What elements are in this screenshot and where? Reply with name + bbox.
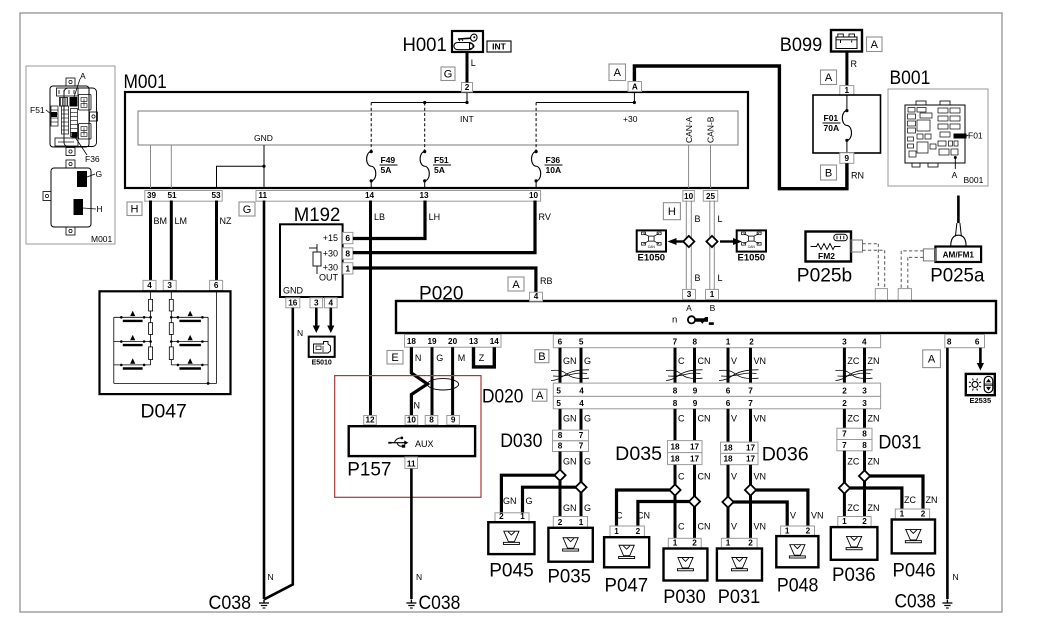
svg-text:RB: RB bbox=[540, 276, 553, 286]
svg-text:2: 2 bbox=[921, 510, 926, 519]
svg-text:NZ: NZ bbox=[220, 216, 232, 226]
svg-text:N: N bbox=[416, 572, 422, 582]
svg-text:ZC: ZC bbox=[847, 457, 859, 467]
svg-text:2: 2 bbox=[749, 338, 754, 347]
svg-text:+30: +30 bbox=[623, 114, 638, 124]
svg-text:F36: F36 bbox=[546, 155, 561, 165]
svg-text:V: V bbox=[731, 356, 737, 366]
svg-text:D035: D035 bbox=[615, 443, 662, 465]
svg-text:4: 4 bbox=[329, 299, 334, 308]
svg-text:ZC: ZC bbox=[847, 503, 859, 513]
svg-text:ZN: ZN bbox=[868, 414, 880, 424]
svg-text:18: 18 bbox=[670, 455, 680, 464]
svg-text:B099: B099 bbox=[780, 34, 822, 56]
svg-text:3: 3 bbox=[314, 299, 319, 308]
svg-text:L: L bbox=[471, 58, 476, 68]
svg-text:VN: VN bbox=[754, 472, 767, 482]
svg-text:10: 10 bbox=[407, 416, 417, 425]
svg-text:1: 1 bbox=[726, 338, 731, 347]
svg-text:GN: GN bbox=[563, 356, 577, 366]
svg-text:B: B bbox=[695, 214, 701, 224]
svg-text:5A: 5A bbox=[434, 165, 445, 175]
svg-text:RN: RN bbox=[851, 171, 864, 181]
svg-text:P030: P030 bbox=[663, 586, 706, 608]
svg-text:ZN: ZN bbox=[868, 503, 880, 513]
svg-text:A: A bbox=[512, 279, 520, 291]
svg-text:A: A bbox=[80, 71, 86, 81]
svg-text:P046: P046 bbox=[893, 560, 936, 582]
svg-text:ZC: ZC bbox=[904, 495, 916, 505]
svg-text:N: N bbox=[414, 401, 421, 411]
svg-text:1: 1 bbox=[520, 512, 525, 521]
svg-text:V: V bbox=[731, 414, 737, 424]
svg-text:1: 1 bbox=[726, 539, 731, 548]
svg-text:V: V bbox=[790, 511, 796, 521]
svg-text:F01: F01 bbox=[824, 113, 839, 123]
svg-text:8: 8 bbox=[947, 338, 952, 347]
svg-text:INT: INT bbox=[460, 114, 474, 124]
svg-text:5: 5 bbox=[579, 338, 584, 347]
svg-text:ZN: ZN bbox=[926, 495, 938, 505]
svg-text:25: 25 bbox=[706, 192, 716, 201]
svg-text:LH: LH bbox=[429, 212, 441, 222]
svg-text:CN: CN bbox=[698, 414, 711, 424]
svg-text:10: 10 bbox=[529, 191, 539, 200]
svg-text:4: 4 bbox=[579, 386, 584, 395]
svg-text:6: 6 bbox=[345, 233, 350, 243]
svg-text:1: 1 bbox=[673, 539, 678, 548]
svg-text:3: 3 bbox=[842, 338, 847, 347]
svg-text:D030: D030 bbox=[500, 430, 542, 452]
svg-text:A: A bbox=[536, 390, 544, 402]
svg-text:C: C bbox=[616, 511, 623, 521]
svg-text:P045: P045 bbox=[489, 560, 534, 582]
svg-text:CN: CN bbox=[698, 472, 711, 482]
svg-text:G: G bbox=[243, 204, 252, 216]
svg-text:G: G bbox=[444, 69, 453, 81]
svg-text:LB: LB bbox=[374, 212, 385, 222]
svg-text:A: A bbox=[825, 72, 833, 84]
svg-text:2: 2 bbox=[692, 539, 697, 548]
svg-text:CN: CN bbox=[637, 511, 650, 521]
svg-text:E1050: E1050 bbox=[638, 253, 665, 264]
svg-text:8: 8 bbox=[429, 416, 434, 425]
svg-text:6: 6 bbox=[975, 338, 980, 347]
svg-text:13: 13 bbox=[419, 191, 429, 200]
svg-text:N: N bbox=[953, 572, 959, 582]
svg-text:P157: P157 bbox=[347, 459, 391, 481]
svg-text:2: 2 bbox=[636, 527, 641, 536]
svg-text:4: 4 bbox=[534, 292, 539, 301]
svg-text:8: 8 bbox=[673, 386, 678, 395]
svg-text:ZN: ZN bbox=[868, 457, 880, 467]
svg-text:D036: D036 bbox=[762, 444, 809, 466]
svg-text:CN: CN bbox=[698, 356, 711, 366]
svg-text:CAN: CAN bbox=[748, 245, 756, 249]
svg-text:H: H bbox=[668, 206, 676, 218]
svg-text:17: 17 bbox=[746, 443, 756, 452]
svg-text:9: 9 bbox=[845, 154, 850, 163]
svg-text:8: 8 bbox=[673, 399, 678, 408]
svg-text:P025a: P025a bbox=[930, 264, 984, 286]
svg-text:8: 8 bbox=[558, 442, 563, 451]
svg-text:F36: F36 bbox=[85, 154, 100, 164]
svg-text:7: 7 bbox=[579, 431, 584, 440]
svg-text:E5010: E5010 bbox=[312, 360, 332, 367]
svg-text:12: 12 bbox=[365, 416, 375, 425]
svg-text:C: C bbox=[678, 414, 685, 424]
svg-text:G: G bbox=[436, 353, 443, 363]
svg-text:L: L bbox=[718, 214, 723, 224]
svg-text:G: G bbox=[584, 503, 591, 513]
svg-text:G: G bbox=[96, 169, 103, 179]
svg-text:2: 2 bbox=[842, 386, 847, 395]
svg-text:E1050: E1050 bbox=[738, 253, 765, 264]
svg-text:6: 6 bbox=[726, 386, 731, 395]
svg-text:RV: RV bbox=[539, 212, 551, 222]
svg-text:H001: H001 bbox=[403, 34, 447, 56]
svg-text:1: 1 bbox=[614, 527, 619, 536]
svg-text:3: 3 bbox=[862, 399, 867, 408]
svg-text:C038: C038 bbox=[895, 591, 936, 613]
svg-text:GN: GN bbox=[563, 503, 577, 513]
svg-text:5: 5 bbox=[556, 399, 561, 408]
svg-text:9: 9 bbox=[451, 416, 456, 425]
svg-text:18: 18 bbox=[723, 443, 733, 452]
svg-text:GN: GN bbox=[563, 457, 577, 467]
svg-text:7: 7 bbox=[748, 399, 753, 408]
svg-text:N: N bbox=[268, 572, 274, 582]
svg-text:7: 7 bbox=[842, 430, 847, 439]
svg-text:M001: M001 bbox=[91, 234, 113, 244]
svg-text:53: 53 bbox=[211, 191, 221, 200]
svg-text:G: G bbox=[584, 356, 591, 366]
svg-text:ZN: ZN bbox=[868, 356, 880, 366]
svg-text:19: 19 bbox=[427, 337, 437, 346]
svg-text:7: 7 bbox=[579, 442, 584, 451]
svg-text:51: 51 bbox=[167, 191, 177, 200]
svg-text:P031: P031 bbox=[718, 586, 761, 608]
svg-text:B: B bbox=[538, 351, 545, 363]
svg-text:L: L bbox=[718, 273, 723, 283]
svg-text:Z: Z bbox=[479, 353, 485, 363]
svg-text:C: C bbox=[678, 522, 685, 532]
svg-text:8: 8 bbox=[558, 431, 563, 440]
svg-text:2: 2 bbox=[465, 83, 470, 92]
svg-text:CAN-B: CAN-B bbox=[706, 116, 716, 143]
svg-text:20: 20 bbox=[448, 337, 458, 346]
svg-text:A: A bbox=[614, 67, 622, 79]
svg-text:P036: P036 bbox=[832, 564, 876, 586]
svg-text:FM2: FM2 bbox=[818, 251, 835, 261]
svg-text:2: 2 bbox=[862, 517, 867, 526]
svg-text:G: G bbox=[584, 457, 591, 467]
svg-text:C038: C038 bbox=[419, 592, 461, 614]
svg-text:H: H bbox=[131, 204, 139, 216]
svg-text:D020: D020 bbox=[482, 386, 524, 408]
svg-text:2: 2 bbox=[842, 399, 847, 408]
svg-text:5A: 5A bbox=[381, 165, 392, 175]
svg-text:AUX: AUX bbox=[415, 439, 434, 449]
svg-text:+30: +30 bbox=[323, 249, 338, 259]
svg-text:P035: P035 bbox=[548, 565, 592, 587]
svg-text:4: 4 bbox=[862, 338, 867, 347]
svg-text:1: 1 bbox=[900, 510, 905, 519]
svg-text:2: 2 bbox=[748, 539, 753, 548]
svg-text:5: 5 bbox=[556, 386, 561, 395]
svg-text:B001: B001 bbox=[964, 175, 984, 185]
svg-text:D047: D047 bbox=[141, 401, 187, 423]
svg-text:8: 8 bbox=[345, 248, 350, 258]
svg-text:3: 3 bbox=[687, 290, 692, 299]
svg-text:M: M bbox=[458, 353, 466, 363]
svg-text:R: R bbox=[851, 59, 858, 69]
svg-text:10A: 10A bbox=[546, 165, 562, 175]
svg-text:B: B bbox=[825, 167, 832, 179]
svg-text:P047: P047 bbox=[605, 575, 649, 597]
svg-text:3: 3 bbox=[862, 386, 867, 395]
svg-text:A: A bbox=[871, 39, 879, 51]
svg-text:ZC: ZC bbox=[847, 356, 859, 366]
svg-text:8: 8 bbox=[862, 441, 867, 450]
svg-text:14: 14 bbox=[365, 191, 375, 200]
svg-text:ZC: ZC bbox=[847, 414, 859, 424]
svg-text:1: 1 bbox=[845, 86, 850, 95]
svg-text:M001: M001 bbox=[124, 71, 167, 93]
svg-text:CAN: CAN bbox=[648, 245, 656, 249]
svg-text:1: 1 bbox=[710, 290, 715, 299]
svg-text:V: V bbox=[731, 472, 737, 482]
svg-text:9: 9 bbox=[693, 386, 698, 395]
svg-text:F49: F49 bbox=[381, 155, 396, 165]
svg-text:GN: GN bbox=[563, 414, 577, 424]
svg-text:E2535: E2535 bbox=[969, 396, 991, 405]
svg-text:1: 1 bbox=[345, 263, 350, 273]
svg-text:7: 7 bbox=[748, 386, 753, 395]
svg-text:VN: VN bbox=[811, 511, 824, 521]
svg-text:6: 6 bbox=[558, 338, 563, 347]
svg-text:M192: M192 bbox=[294, 204, 341, 226]
svg-text:A: A bbox=[952, 170, 958, 180]
svg-text:GN: GN bbox=[503, 496, 517, 506]
svg-text:+15: +15 bbox=[323, 233, 338, 243]
svg-text:H: H bbox=[97, 204, 103, 214]
svg-text:AM/FM1: AM/FM1 bbox=[943, 250, 975, 259]
svg-text:D031: D031 bbox=[878, 432, 921, 454]
svg-text:C: C bbox=[678, 356, 685, 366]
svg-text:11: 11 bbox=[258, 191, 267, 200]
svg-text:P025b: P025b bbox=[797, 264, 853, 286]
svg-text:4: 4 bbox=[147, 281, 152, 290]
svg-text:14: 14 bbox=[490, 337, 500, 346]
svg-text:INT: INT bbox=[492, 42, 507, 52]
svg-text:GND: GND bbox=[254, 133, 273, 143]
svg-text:8: 8 bbox=[862, 430, 867, 439]
svg-text:A: A bbox=[686, 303, 692, 313]
svg-text:1: 1 bbox=[785, 527, 790, 536]
svg-text:11: 11 bbox=[407, 459, 416, 468]
svg-text:2: 2 bbox=[499, 512, 504, 521]
svg-text:F51: F51 bbox=[30, 105, 45, 115]
svg-text:7: 7 bbox=[673, 338, 678, 347]
svg-text:A: A bbox=[632, 82, 638, 91]
svg-text:E: E bbox=[391, 352, 398, 364]
svg-text:N: N bbox=[297, 328, 303, 338]
svg-text:9: 9 bbox=[693, 399, 698, 408]
svg-text:G: G bbox=[584, 414, 591, 424]
svg-text:VN: VN bbox=[754, 356, 767, 366]
svg-text:1: 1 bbox=[842, 517, 847, 526]
svg-text:6: 6 bbox=[214, 281, 219, 290]
svg-text:C038: C038 bbox=[209, 592, 252, 614]
svg-text:B001: B001 bbox=[890, 67, 931, 89]
svg-text:17: 17 bbox=[746, 455, 756, 464]
svg-text:B: B bbox=[710, 303, 716, 313]
svg-text:OUT: OUT bbox=[319, 273, 339, 283]
svg-text:B: B bbox=[695, 273, 701, 283]
svg-text:C: C bbox=[678, 472, 685, 482]
svg-text:70A: 70A bbox=[824, 123, 840, 133]
svg-text:VN: VN bbox=[754, 522, 767, 532]
svg-text:13: 13 bbox=[469, 337, 479, 346]
svg-text:3: 3 bbox=[167, 281, 172, 290]
svg-text:16: 16 bbox=[288, 299, 298, 308]
svg-text:1: 1 bbox=[579, 518, 584, 527]
svg-text:6: 6 bbox=[726, 399, 731, 408]
svg-text:F51: F51 bbox=[434, 155, 449, 165]
svg-text:+30: +30 bbox=[323, 263, 338, 273]
svg-text:n: n bbox=[672, 315, 677, 326]
svg-text:CN: CN bbox=[698, 522, 711, 532]
svg-text:P048: P048 bbox=[777, 575, 819, 597]
svg-text:10: 10 bbox=[684, 192, 694, 201]
svg-text:17: 17 bbox=[690, 443, 700, 452]
svg-text:18: 18 bbox=[723, 455, 733, 464]
svg-text:G: G bbox=[526, 496, 533, 506]
svg-text:V: V bbox=[731, 522, 737, 532]
svg-text:BM: BM bbox=[154, 216, 168, 226]
svg-text:F01: F01 bbox=[968, 131, 983, 141]
svg-text:8: 8 bbox=[693, 338, 698, 347]
svg-text:2: 2 bbox=[806, 527, 811, 536]
svg-text:N: N bbox=[415, 353, 422, 363]
svg-text:17: 17 bbox=[690, 455, 700, 464]
svg-text:39: 39 bbox=[147, 191, 157, 200]
svg-text:4: 4 bbox=[579, 399, 584, 408]
svg-text:A: A bbox=[928, 354, 936, 366]
svg-text:18: 18 bbox=[670, 443, 680, 452]
svg-text:2: 2 bbox=[558, 518, 563, 527]
svg-text:VN: VN bbox=[754, 414, 767, 424]
svg-text:18: 18 bbox=[407, 337, 417, 346]
svg-text:GND: GND bbox=[283, 286, 304, 296]
svg-text:LM: LM bbox=[175, 216, 188, 226]
svg-text:7: 7 bbox=[842, 441, 847, 450]
svg-text:CAN-A: CAN-A bbox=[684, 116, 694, 143]
